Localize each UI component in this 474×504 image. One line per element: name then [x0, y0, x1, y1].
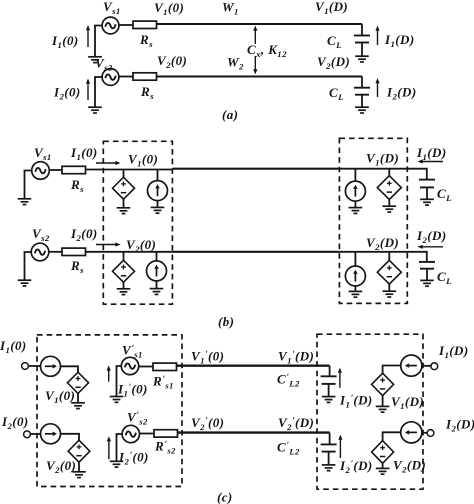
ground [383, 206, 397, 212]
svg-text:V2ʹ(D): V2ʹ(D) [278, 415, 314, 432]
arrow I1(0) [96, 161, 121, 165]
current source I2(0) [41, 424, 61, 444]
svg-text:V1(D): V1(D) [391, 394, 424, 411]
wire Rs into box [86, 251, 173, 253]
svg-text:I2ʹ(0): I2ʹ(0) [118, 450, 149, 467]
wire to ground [157, 201, 159, 208]
dashed box transmitter [37, 335, 182, 487]
resistor Rs [133, 21, 157, 28]
dependent source V1(D) [372, 373, 394, 395]
svg-text:V2(0): V2(0) [46, 458, 76, 475]
wire to ground [78, 462, 80, 471]
wire to dep source [388, 169, 390, 176]
current source [345, 181, 365, 201]
arrow I1(D) [418, 159, 444, 163]
wire line W2 [157, 75, 363, 77]
wire to ground [77, 393, 79, 402]
svg-text:V2ʹ(0): V2ʹ(0) [191, 415, 224, 432]
ground [376, 468, 390, 474]
dependent source diamond [113, 260, 135, 282]
arrow I2tilde(D) [338, 435, 342, 458]
wire Vs1 to Rs [119, 24, 133, 26]
wire CL to ground [426, 269, 428, 281]
arrow I1tilde(D) [338, 368, 342, 388]
svg-text:I2(D): I2(D) [416, 228, 447, 245]
wire CL to ground [361, 95, 363, 107]
wire to ground [156, 281, 158, 289]
wire CL to ground [361, 43, 363, 57]
svg-text:I2(0): I2(0) [1, 414, 29, 431]
ground [88, 57, 102, 63]
wire to dep source [123, 252, 125, 260]
arrow I2(0) [96, 242, 121, 246]
wire to current source [157, 170, 159, 181]
wire to CL [361, 24, 363, 36]
ground [72, 472, 86, 478]
arrow I1tilde(0) [107, 365, 111, 381]
ground [110, 461, 124, 467]
capacitor CpL2 [321, 444, 337, 451]
svg-text:(a): (a) [222, 107, 238, 122]
svg-text:I1(0): I1(0) [51, 33, 79, 50]
wire to ground [123, 199, 125, 207]
wire to current source [156, 252, 158, 261]
svg-text:I1(0): I1(0) [70, 145, 98, 162]
arrow I2tilde(0) [107, 436, 111, 459]
svg-text:V2(D): V2(D) [317, 54, 350, 71]
svg-text:I1ʹ(D): I1ʹ(D) [339, 393, 373, 410]
ground [88, 107, 102, 113]
wire line 1 [172, 168, 339, 170]
ground [376, 406, 390, 412]
resistor Rs [62, 166, 86, 173]
AC source Vs2 [31, 243, 49, 261]
wire to dep source [388, 252, 390, 260]
wire to resistor [139, 366, 153, 368]
wire to ground [123, 282, 125, 288]
current source [147, 261, 167, 281]
svg-text:V1(D): V1(D) [315, 0, 348, 16]
AC source Vs1 [102, 17, 119, 34]
arrow I1(D) [375, 26, 379, 46]
ground [349, 208, 363, 214]
resistor Rs [133, 73, 157, 80]
dashed box near end [103, 141, 172, 304]
wire Vs2 to Rs [119, 76, 133, 78]
svg-text:I2(0): I2(0) [70, 226, 98, 243]
resistor Rs [62, 248, 86, 255]
wire to current source [354, 169, 356, 182]
wire to dep source [123, 170, 125, 178]
wire Vs1 to ground [95, 26, 102, 57]
wire Vps2 to ground [117, 434, 123, 461]
current source [148, 181, 168, 201]
ground [151, 207, 165, 213]
resistor Rps2 [154, 430, 178, 437]
wire to ground [382, 463, 384, 468]
arrow I1(0) [86, 25, 90, 47]
capacitor CpL2 [321, 376, 337, 384]
wire line 1 [177, 365, 330, 367]
dependent source V1(0) [67, 372, 88, 393]
wire to ground [354, 286, 356, 291]
svg-text:(c): (c) [217, 490, 233, 504]
wire Vs2 to Rs [49, 251, 62, 253]
current source I1(0) [41, 356, 61, 376]
wire CL to ground [426, 187, 428, 199]
wire line2 to CL [339, 252, 426, 262]
wire Vs1 to Rs [49, 169, 62, 171]
svg-text:V1ʹ(D): V1ʹ(D) [278, 349, 314, 366]
wire dep source to current source [383, 366, 401, 374]
svg-text:I1(D): I1(D) [416, 145, 447, 162]
wire line 2 [178, 431, 330, 433]
ground [355, 56, 369, 62]
wire Vps1 to ground [117, 366, 122, 396]
wire to ground [354, 201, 356, 207]
wire to CL [361, 77, 363, 88]
arrow I2(D) [418, 245, 444, 249]
wire cap to ground [328, 384, 330, 397]
arrow I2(D) [375, 78, 379, 97]
wire line1 to CL [339, 169, 426, 180]
svg-text:V2(D): V2(D) [393, 458, 426, 475]
ground [383, 291, 397, 297]
wire dep source to current source [383, 432, 401, 440]
svg-text:I2(0): I2(0) [53, 85, 81, 102]
capacitor CL [419, 262, 435, 269]
ground [420, 280, 434, 286]
dependent source V2(0) [68, 440, 90, 462]
ground [322, 465, 336, 471]
dependent source diamond [377, 260, 401, 284]
ground [117, 289, 131, 295]
svg-text:V1(0): V1(0) [128, 152, 158, 169]
wire line2 to cap [329, 433, 331, 445]
svg-text:I1(D): I1(D) [438, 343, 469, 360]
terminal I1(D) [431, 363, 438, 370]
terminal I2(0) [24, 431, 31, 438]
wire to resistor [140, 433, 155, 435]
ground [71, 403, 85, 409]
AC source Vs2 [102, 69, 119, 86]
wire to terminal [422, 432, 427, 434]
svg-text:V2(D): V2(D) [366, 235, 399, 252]
ground [355, 107, 369, 113]
wire to ground [388, 284, 390, 291]
svg-text:I1(0): I1(0) [0, 338, 27, 355]
svg-text:(b): (b) [218, 314, 234, 329]
ground [117, 208, 131, 214]
wire to ground [382, 396, 384, 407]
svg-text:I2(D): I2(D) [386, 85, 417, 102]
AC source Vps2 [122, 425, 139, 442]
wire Rs into box [86, 169, 173, 171]
arrow I2(0) [86, 79, 90, 101]
wire cap to ground [328, 452, 330, 465]
wire to ground [388, 200, 390, 207]
dependent source diamond [377, 176, 401, 200]
svg-text:V1ʹ(0): V1ʹ(0) [191, 349, 224, 366]
wire Vs2 to ground [95, 77, 102, 107]
AC source Vps1 [121, 357, 138, 374]
dependent source diamond [113, 177, 135, 199]
wire line 2 [172, 251, 339, 253]
wire terminal to source [30, 433, 40, 435]
wire to dep source [61, 434, 80, 441]
ground [150, 289, 164, 295]
resistor Rps1 [153, 363, 177, 370]
current source I1(D) [401, 355, 422, 376]
capacitor CL [354, 36, 370, 43]
capacitor CL [419, 180, 435, 188]
wire terminal to source [28, 365, 40, 367]
wire line1 to cap [329, 366, 331, 377]
coupling arrow Cx K12 [253, 26, 257, 75]
svg-text:I2(D): I2(D) [445, 417, 474, 434]
svg-text:V1(0): V1(0) [45, 388, 75, 405]
current source [345, 266, 365, 286]
wire to dep source [61, 366, 79, 372]
wire line W1 [157, 23, 363, 25]
dependent source V2(D) [372, 441, 394, 464]
ground [322, 397, 336, 403]
wire Vs2 to ground [25, 252, 32, 280]
wire Vs1 to ground [25, 171, 32, 199]
svg-text:I1(D): I1(D) [384, 32, 415, 49]
current source I2(D) [401, 422, 422, 443]
ground [420, 199, 434, 205]
ground [18, 199, 32, 205]
svg-text:V2(0): V2(0) [157, 53, 187, 70]
wire to current source [354, 252, 356, 266]
ground [349, 291, 363, 297]
terminal I1(0) [22, 363, 29, 370]
capacitor CL [354, 88, 370, 95]
svg-text:V1(0): V1(0) [154, 0, 184, 17]
svg-text:V1(D): V1(D) [366, 151, 399, 168]
ground [18, 280, 32, 286]
AC source Vs1 [32, 162, 50, 180]
ground [110, 397, 124, 403]
dashed box receiver [317, 334, 423, 489]
terminal I2(D) [427, 430, 434, 437]
dashed box far end [339, 138, 407, 303]
wire to terminal [422, 365, 431, 367]
svg-text:V2(0): V2(0) [126, 237, 156, 254]
svg-text:I2ʹ(D): I2ʹ(D) [339, 458, 373, 475]
